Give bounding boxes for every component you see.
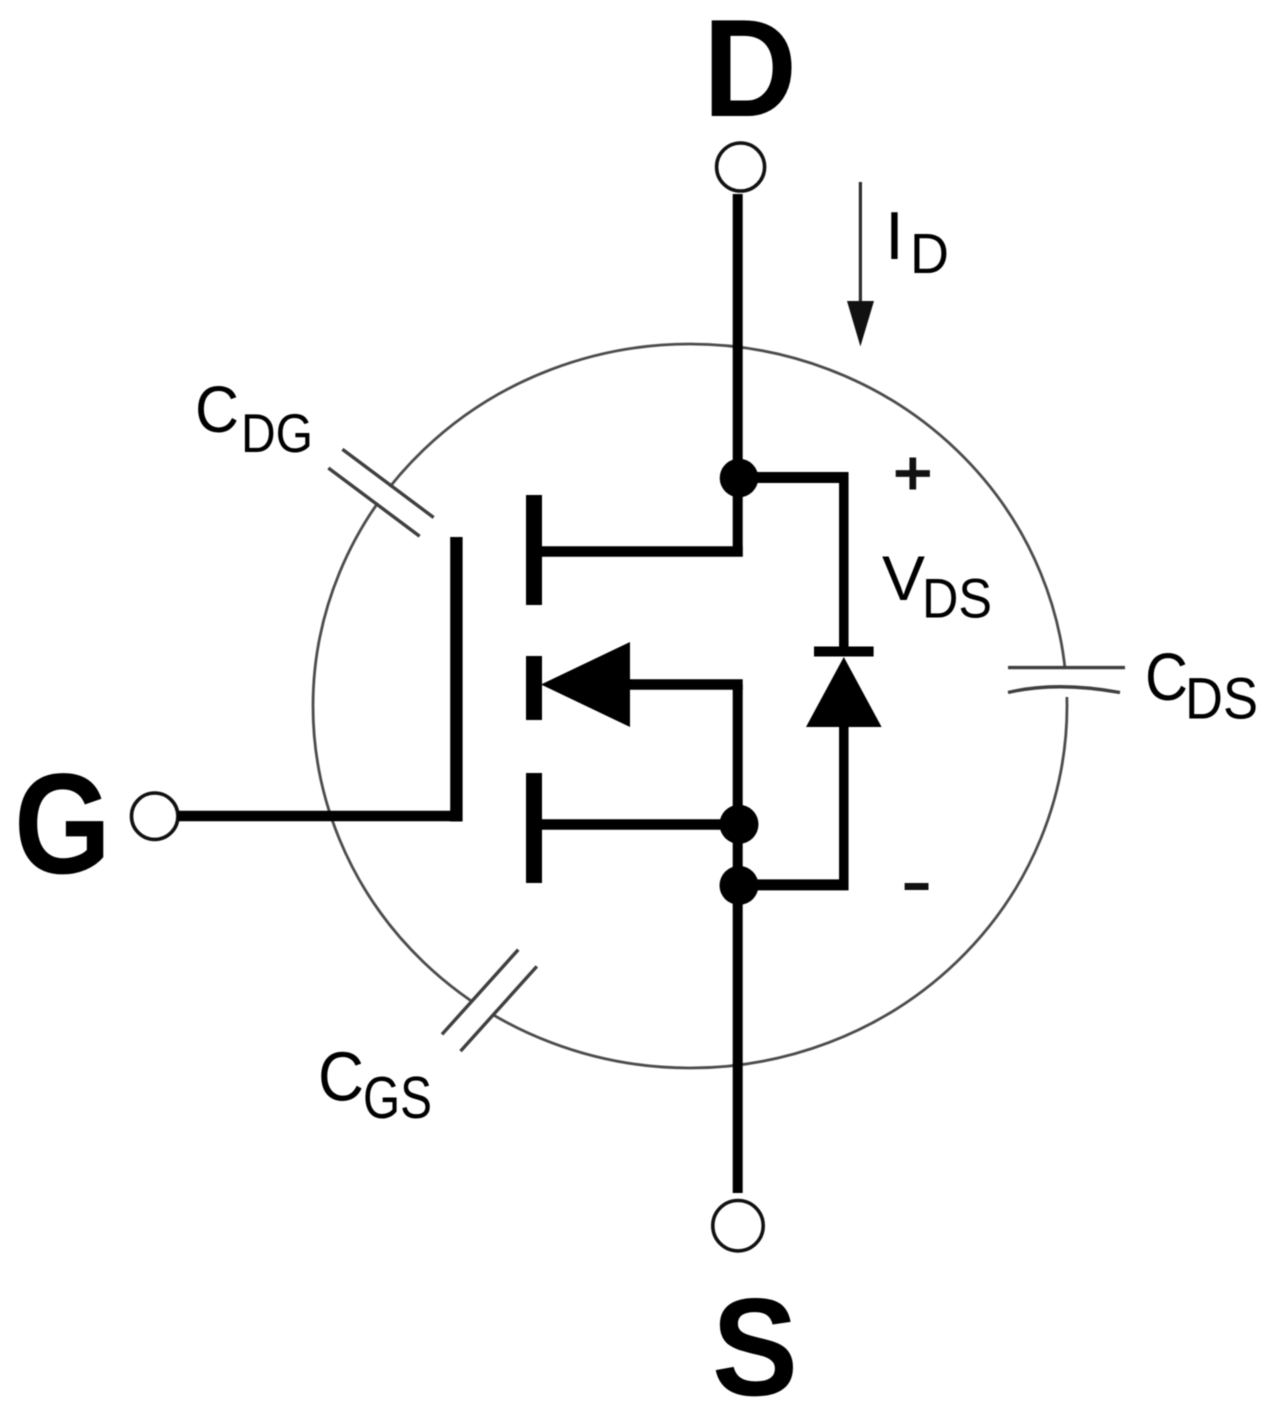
svg-text:C: C [318, 1037, 364, 1115]
label + (V_DS plus) [896, 458, 930, 490]
diode D1 cathode bar [814, 647, 874, 657]
wire drain to diode (top horizontal) [735, 472, 849, 483]
transistor body outline circle [313, 344, 1067, 1068]
label I_D [885, 198, 949, 285]
label C_DS [1145, 640, 1258, 732]
diode D1 lower lead [839, 726, 849, 890]
wire body to source vertical [733, 685, 743, 825]
svg-text:DS: DS [922, 567, 992, 630]
node source junction dot [720, 805, 759, 844]
svg-text:V: V [882, 544, 925, 614]
node drain junction dot [720, 459, 759, 498]
svg-text:I: I [885, 198, 904, 274]
svg-text:C: C [195, 373, 239, 447]
svg-text:S: S [712, 1270, 798, 1411]
MOSFET Q1: channel bar top (drain) [526, 495, 542, 605]
current arrow ID [847, 182, 874, 347]
svg-text:GS: GS [363, 1064, 432, 1131]
wire drain vertical [733, 194, 743, 557]
svg-text:D: D [910, 222, 949, 285]
label - (V_DS minus) [905, 883, 929, 890]
capacitor CDG (gap + plates crossing circle, upper-left) [324, 446, 437, 539]
svg-text:D: D [703, 0, 797, 146]
MOSFET Q1: channel bar bottom (source) [526, 773, 542, 883]
wire gate horizontal [178, 811, 462, 822]
capacitor CDS (gap + plates crossing circle, right) [1008, 668, 1126, 697]
svg-text:C: C [1145, 640, 1188, 715]
diode D1 triangle [806, 657, 882, 727]
MOSFET Q1: channel bar middle (body) [526, 656, 542, 720]
wire source vertical to terminal [733, 825, 743, 1194]
capacitor CGS (gap + plates crossing circle, lower-left) [439, 946, 541, 1055]
terminal S circle [713, 1201, 763, 1251]
label C_GS [318, 1037, 432, 1131]
label C_DG [195, 373, 313, 464]
terminal D circle [717, 143, 765, 191]
MOSFET Q1: body arrow line [600, 679, 743, 690]
svg-text:G: G [14, 745, 111, 904]
svg-text:DS: DS [1185, 667, 1258, 732]
MOSFET Q1: body arrowhead [541, 642, 630, 727]
MOSFET Q1: drain horizontal lead [541, 546, 743, 557]
label V_DS [882, 544, 992, 630]
terminal G circle [132, 793, 178, 839]
svg-text:DG: DG [241, 403, 313, 464]
diode D1 upper lead [839, 472, 849, 652]
node source-diode junction dot [720, 866, 759, 905]
MOSFET Q1: gate bar [450, 537, 462, 822]
wire source to diode (bottom horizontal) [735, 879, 849, 890]
MOSFET Q1: source horizontal lead [541, 819, 739, 830]
